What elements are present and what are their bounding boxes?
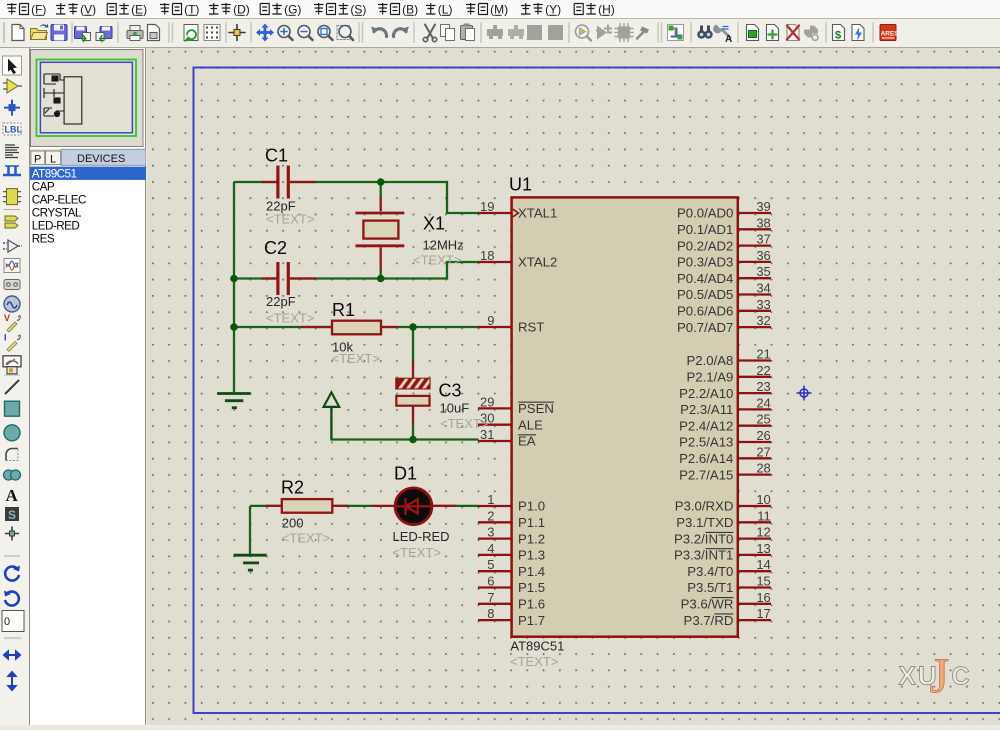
- svg-text:XTAL2: XTAL2: [518, 255, 557, 270]
- value D1 LED-RED: [393, 529, 450, 544]
- svg-text:<TEXT>: <TEXT>: [332, 351, 380, 366]
- wire C1 left to trunk: [234, 182, 479, 555]
- svg-text:P0.1/AD1: P0.1/AD1: [677, 222, 733, 237]
- svg-text:P3.4/T0: P3.4/T0: [687, 564, 733, 579]
- svg-text:D1: D1: [394, 463, 417, 483]
- svg-text:8: 8: [487, 606, 494, 621]
- svg-text:14: 14: [756, 557, 770, 572]
- junction dot: [377, 275, 385, 283]
- cursor crosshair: [797, 386, 812, 401]
- text C3: [440, 416, 488, 431]
- wire X1 top to junction: [380, 182, 382, 198]
- svg-text:39: 39: [756, 199, 770, 214]
- svg-text:CAP-ELEC: CAP-ELEC: [32, 194, 86, 207]
- svg-text:12MHz: 12MHz: [423, 238, 464, 253]
- label R1: [332, 300, 355, 320]
- svg-text:37: 37: [756, 232, 770, 247]
- text R2: [282, 531, 330, 546]
- label C3: [439, 381, 462, 401]
- svg-text:P3.6/WR: P3.6/WR: [681, 597, 734, 612]
- wire power arrow to EA pin 31: [331, 439, 478, 440]
- svg-text:0: 0: [4, 616, 10, 628]
- svg-text:(F): (F): [31, 3, 46, 17]
- svg-text:36: 36: [756, 248, 770, 263]
- svg-text:P1.6: P1.6: [518, 597, 545, 612]
- svg-text:P2.2/A10: P2.2/A10: [679, 386, 733, 401]
- svg-text:P3.1/TXD: P3.1/TXD: [676, 515, 733, 530]
- svg-text:P1.5: P1.5: [518, 580, 545, 595]
- wire R2 to D1: [250, 505, 373, 507]
- U1 left pin numbers: [480, 199, 494, 621]
- svg-text:6: 6: [487, 574, 494, 589]
- svg-text:P2.3/A11: P2.3/A11: [680, 402, 733, 417]
- svg-text:24: 24: [756, 395, 770, 410]
- svg-text:2: 2: [487, 508, 494, 523]
- svg-text:10: 10: [756, 492, 770, 507]
- svg-text:(M): (M): [490, 3, 508, 17]
- capacitor C1: [262, 166, 317, 199]
- svg-text:<TEXT>: <TEXT>: [266, 212, 314, 227]
- svg-text:P3.5/T1: P3.5/T1: [687, 580, 733, 595]
- svg-text:P2.5/A13: P2.5/A13: [679, 435, 733, 450]
- value X1 12MHz: [423, 238, 464, 253]
- svg-text:RST: RST: [518, 320, 544, 335]
- svg-text:(D): (D): [233, 3, 250, 17]
- svg-text:(E): (E): [131, 3, 147, 17]
- svg-text:J: J: [930, 647, 949, 703]
- svg-text:5: 5: [487, 557, 494, 572]
- wire C2 right to XTAL2: [290, 262, 479, 279]
- svg-text:(T): (T): [184, 3, 199, 17]
- svg-text:R1: R1: [332, 300, 355, 320]
- value U1 AT89C51: [510, 639, 564, 654]
- svg-text:C3: C3: [439, 381, 462, 401]
- svg-text:X1: X1: [423, 214, 445, 234]
- text U1: [510, 654, 558, 669]
- crystal X1: [356, 198, 405, 271]
- svg-text:15: 15: [756, 574, 770, 589]
- wire left trunk vertical: [233, 182, 235, 392]
- text C1: [266, 212, 314, 227]
- svg-text:P1.7: P1.7: [518, 613, 545, 628]
- svg-text:(L): (L): [438, 3, 453, 17]
- sheet border: [194, 68, 1000, 714]
- svg-text:XTAL1: XTAL1: [518, 206, 557, 221]
- label C1: [265, 146, 288, 166]
- svg-text:22: 22: [756, 363, 770, 378]
- wire X1 bottom to junction: [380, 270, 382, 279]
- svg-text:CAP: CAP: [32, 180, 55, 193]
- U1 left pin stubs: [478, 213, 511, 620]
- svg-text:25: 25: [756, 412, 770, 427]
- junction dot: [409, 436, 417, 444]
- svg-text:P2.6/A14: P2.6/A14: [679, 451, 733, 466]
- svg-text:32: 32: [756, 313, 770, 328]
- svg-text:(B): (B): [402, 3, 418, 17]
- svg-text:22pF: 22pF: [266, 294, 296, 309]
- value R2 200: [282, 516, 304, 531]
- svg-text:RES: RES: [32, 233, 55, 246]
- svg-text:U1: U1: [509, 175, 532, 195]
- svg-text:P3.7/RD: P3.7/RD: [684, 613, 734, 628]
- svg-text:A: A: [725, 34, 732, 45]
- svg-text:C: C: [952, 663, 970, 691]
- wire C1 right to XTAL1: [290, 182, 479, 213]
- wire C2 left to trunk: [234, 277, 277, 279]
- value C1 22pF: [266, 199, 296, 214]
- watermark XUJC: [899, 647, 970, 703]
- svg-text:P1.4: P1.4: [518, 564, 545, 579]
- svg-text:16: 16: [756, 590, 770, 605]
- svg-text:12: 12: [756, 525, 770, 540]
- text R1: [332, 351, 380, 366]
- svg-text:13: 13: [756, 541, 770, 556]
- svg-text:$: $: [835, 30, 841, 42]
- svg-text:P: P: [34, 153, 41, 165]
- svg-text:P0.3/AD3: P0.3/AD3: [677, 255, 733, 270]
- svg-text:P1.1: P1.1: [518, 515, 545, 530]
- svg-text:PSEN: PSEN: [518, 401, 554, 416]
- label D1: [394, 463, 417, 483]
- svg-text:18: 18: [480, 248, 494, 263]
- text D1: [393, 545, 441, 560]
- svg-text:V: V: [4, 313, 10, 323]
- text X1: [413, 253, 461, 268]
- svg-text:P0.0/AD0: P0.0/AD0: [677, 206, 733, 221]
- svg-text:LED-RED: LED-RED: [393, 529, 450, 544]
- svg-text:P1.3: P1.3: [518, 548, 545, 563]
- svg-text:P0.2/AD2: P0.2/AD2: [677, 238, 733, 253]
- ground (under R2): [234, 555, 267, 570]
- svg-text:P3.3/INT1: P3.3/INT1: [674, 548, 733, 563]
- svg-text:<TEXT>: <TEXT>: [510, 654, 558, 669]
- LED D1: [372, 488, 456, 525]
- U1 right pin stubs: [739, 213, 771, 620]
- svg-text:3: 3: [487, 525, 494, 540]
- svg-text:35: 35: [756, 264, 770, 279]
- svg-text:L: L: [50, 153, 56, 165]
- wire R2 ground stem: [249, 506, 251, 555]
- U1 overlines PSEN EA: [518, 402, 554, 435]
- svg-text:LBL: LBL: [5, 125, 23, 135]
- svg-text:AT89C51: AT89C51: [510, 639, 564, 654]
- svg-text:<TEXT>: <TEXT>: [393, 545, 441, 560]
- svg-text:(H): (H): [598, 3, 615, 17]
- U1 overlines INT0 INT1 WR RD: [706, 532, 734, 614]
- svg-text:P0.7/AD7: P0.7/AD7: [677, 320, 733, 335]
- junction dot: [230, 275, 238, 283]
- wire C3 bottom to EA net: [412, 423, 414, 440]
- svg-text:29: 29: [480, 394, 494, 409]
- svg-text:P0.4/AD4: P0.4/AD4: [677, 271, 733, 286]
- svg-text:26: 26: [756, 428, 770, 443]
- svg-text:S: S: [8, 508, 16, 522]
- IC U1 AT89C51 body: [512, 197, 738, 636]
- svg-text:<TEXT>: <TEXT>: [282, 531, 330, 546]
- svg-text:(V): (V): [80, 3, 96, 17]
- svg-text:200: 200: [282, 516, 304, 531]
- svg-text:(Y): (Y): [545, 3, 561, 17]
- svg-text:A: A: [6, 486, 19, 505]
- svg-text:11: 11: [757, 508, 771, 523]
- capacitor C2: [262, 262, 317, 295]
- svg-text:C2: C2: [264, 238, 287, 258]
- resistor R2: [266, 499, 349, 513]
- U1 right pin numbers: [756, 199, 770, 621]
- svg-text:R2: R2: [281, 478, 304, 498]
- svg-text:27: 27: [756, 444, 770, 459]
- text C2: [266, 311, 314, 326]
- svg-text:EA: EA: [518, 434, 536, 449]
- svg-text:P0.5/AD5: P0.5/AD5: [677, 287, 733, 302]
- U1 left pin names: [518, 206, 557, 628]
- label C2: [264, 238, 287, 258]
- svg-text:P2.0/A8: P2.0/A8: [686, 353, 733, 368]
- svg-text:9: 9: [487, 313, 494, 328]
- svg-text:LED-RED: LED-RED: [32, 220, 80, 233]
- svg-text:P1.0: P1.0: [518, 499, 545, 514]
- junction dot: [409, 323, 417, 331]
- svg-text:<TEXT>: <TEXT>: [266, 311, 314, 326]
- svg-text:P0.6/AD6: P0.6/AD6: [677, 304, 733, 319]
- svg-text:7: 7: [487, 590, 494, 605]
- svg-text:33: 33: [756, 297, 770, 312]
- value C3 10uF: [440, 401, 470, 416]
- wire D1 to P1.0: [433, 505, 479, 507]
- svg-text:P3.2/INT0: P3.2/INT0: [674, 531, 733, 546]
- svg-text:38: 38: [756, 215, 770, 230]
- wire RST net: [234, 326, 479, 328]
- junction dot: [230, 323, 238, 331]
- resistor R1: [301, 321, 398, 335]
- svg-text:P1.2: P1.2: [518, 531, 545, 546]
- U1 right pin names: [674, 206, 733, 628]
- junction dot: [377, 178, 385, 186]
- svg-text:4: 4: [487, 541, 494, 556]
- wire junction RST down to C3: [412, 327, 414, 362]
- label R2: [281, 478, 304, 498]
- svg-text:P2.1/A9: P2.1/A9: [686, 370, 733, 385]
- svg-text:P2.4/A12: P2.4/A12: [679, 418, 733, 433]
- svg-text:ALE: ALE: [518, 417, 543, 432]
- svg-text:I: I: [4, 332, 7, 342]
- svg-text:C1: C1: [265, 146, 288, 166]
- svg-text:<TEXT>: <TEXT>: [440, 416, 488, 431]
- svg-text:ARES: ARES: [881, 30, 899, 37]
- svg-text:1: 1: [487, 492, 494, 507]
- svg-text:28: 28: [756, 461, 770, 476]
- svg-text:(G): (G): [284, 3, 301, 17]
- svg-text:DEVICES: DEVICES: [77, 153, 125, 165]
- svg-text:17: 17: [756, 606, 770, 621]
- label U1: [509, 175, 532, 195]
- svg-text:<TEXT>: <TEXT>: [413, 253, 461, 268]
- value R1 10k: [332, 340, 353, 355]
- svg-text:34: 34: [756, 281, 770, 296]
- svg-text:P2.7/A15: P2.7/A15: [679, 467, 733, 482]
- svg-text:23: 23: [756, 379, 770, 394]
- svg-text:AT89C51: AT89C51: [32, 167, 77, 180]
- power terminal arrow: [324, 392, 340, 439]
- svg-text:19: 19: [480, 199, 494, 214]
- svg-text:21: 21: [756, 347, 770, 362]
- value C2 22pF: [266, 294, 296, 309]
- svg-text:10uF: 10uF: [440, 401, 470, 416]
- label X1: [423, 214, 445, 234]
- svg-text:(S): (S): [350, 3, 366, 17]
- svg-text:CRYSTAL: CRYSTAL: [32, 207, 82, 220]
- ground (left trunk): [217, 394, 251, 408]
- capacitor C3 (electrolytic): [396, 361, 432, 424]
- svg-text:P3.0/RXD: P3.0/RXD: [675, 499, 734, 514]
